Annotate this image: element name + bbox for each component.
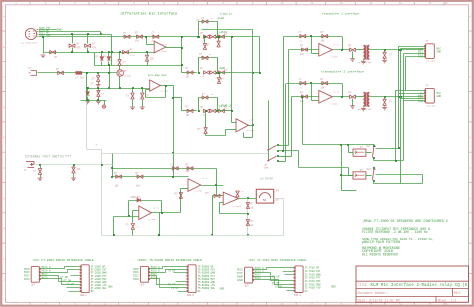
wire switch to relay path xyxy=(298,151,300,168)
wire U7 feedback vertical xyxy=(161,201,163,213)
wire relay right vertical xyxy=(422,175,424,184)
svg-text:RL?: RL? xyxy=(367,145,372,148)
wire foot switch line xyxy=(35,164,113,166)
resistor T1 R output xyxy=(350,48,356,52)
svg-text:R?: R? xyxy=(300,92,304,95)
resistor R10 cell B xyxy=(203,71,209,75)
svg-text:DB9-F: DB9-F xyxy=(80,294,88,297)
svg-text:R?: R? xyxy=(77,43,81,46)
transistor Q2 circle xyxy=(117,70,124,77)
wire U1 output xyxy=(166,47,182,49)
op-amp T2 xyxy=(319,91,333,104)
wire filter input line xyxy=(113,176,189,178)
wire stage rail y=100.3 xyxy=(81,100,107,102)
wire switch feed line y=153.1 pale xyxy=(102,153,269,155)
svg-text:GND: GND xyxy=(237,278,243,282)
wire U5 feedback loop xyxy=(243,133,245,138)
svg-text:C?: C? xyxy=(299,78,303,81)
wire T1 transformer secondary to connector xyxy=(370,49,424,51)
diode D9 cell C xyxy=(219,109,225,113)
wire K1 contact common up xyxy=(373,145,375,146)
wire cell C out right xyxy=(218,110,232,112)
wire relay top line xyxy=(303,144,375,146)
svg-text:J?: J? xyxy=(24,169,28,172)
wire cell B line from riser xyxy=(182,72,197,74)
cable left connector X? xyxy=(245,267,253,283)
svg-text:L?-1644: L?-1644 xyxy=(148,218,157,221)
svg-text:C?: C? xyxy=(33,170,37,173)
wire T2 feedback riser to switch xyxy=(285,84,287,162)
svg-text:R?: R? xyxy=(201,106,205,109)
wire mic pin2 net xyxy=(39,31,101,33)
svg-text:10k: 10k xyxy=(186,75,191,78)
svg-text:µA METER: µA METER xyxy=(261,178,274,181)
wire T2 transformer secondary to connector xyxy=(370,96,424,98)
resistor R18 input xyxy=(137,175,143,179)
svg-text:12: 12 xyxy=(340,303,344,306)
svg-text:4.7k: 4.7k xyxy=(130,54,136,57)
wire U6 +in drop to bus xyxy=(212,196,214,236)
svg-text:µPA3: µPA3 xyxy=(220,30,228,34)
svg-text:C?: C? xyxy=(202,93,206,96)
svg-text:R?: R? xyxy=(186,163,190,166)
svg-text:R?: R? xyxy=(300,45,304,48)
svg-text:R?: R? xyxy=(136,172,140,175)
svg-text:LT1630: LT1630 xyxy=(160,50,168,53)
svg-text:µPWR-2: µPWR-2 xyxy=(220,104,232,108)
svg-text:pre-amp mic: pre-amp mic xyxy=(148,73,167,77)
cable wires xyxy=(254,268,294,270)
svg-text:GND: GND xyxy=(418,99,424,103)
transformer T2 xyxy=(363,92,369,107)
svg-text:C?: C? xyxy=(125,224,129,227)
ground mic xyxy=(41,55,46,58)
svg-text:LT1630: LT1630 xyxy=(331,102,339,105)
capacitor C1 on bus xyxy=(124,35,130,39)
svg-text:1k: 1k xyxy=(251,207,255,210)
connector CN2 xyxy=(426,88,435,103)
wire U5 -in from divider xyxy=(226,129,237,131)
svg-text:R?: R? xyxy=(349,45,353,48)
cell A bypass loop xyxy=(199,22,218,37)
wire T2 output xyxy=(333,96,350,98)
svg-text:Date: 3/15/19 11:07 PM: Date: 3/15/19 11:07 PM xyxy=(358,299,400,303)
resistor T1 R input xyxy=(302,48,308,52)
svg-text:gnd3: gnd3 xyxy=(218,16,225,20)
wire U4 output xyxy=(201,185,224,187)
svg-text:U?.D: U?.D xyxy=(202,177,208,180)
wire K1 coil right pin xyxy=(366,152,372,154)
svg-text:X?: X? xyxy=(426,40,430,43)
svg-text:R?: R? xyxy=(321,78,325,81)
svg-text:16: 16 xyxy=(444,2,448,5)
wire Q2 emitter down to preamp xyxy=(119,77,121,89)
wire T2 transformer bottom pins xyxy=(363,107,365,108)
svg-text:10: 10 xyxy=(281,2,285,5)
switch S2 lever xyxy=(268,156,276,161)
wire pin2 corner down to L3 xyxy=(100,32,102,35)
wire drop from jack line x=86.5 xyxy=(86,73,88,101)
meter M1 xyxy=(256,189,273,203)
svg-text:K?: K? xyxy=(360,169,364,172)
pale vertical drop x=101.9 to bottom bus xyxy=(101,154,103,236)
svg-text:x-: x- xyxy=(96,143,100,146)
svg-text:10k: 10k xyxy=(77,168,82,171)
wire U2 out branch to cell C xyxy=(174,97,182,99)
svg-text:MIC8: MIC8 xyxy=(151,276,158,279)
resistor T2 R feedback xyxy=(322,81,328,85)
wire cell B out right xyxy=(218,72,260,74)
diode D1 series xyxy=(50,50,56,54)
svg-text:47k: 47k xyxy=(77,46,82,49)
svg-text:D?: D? xyxy=(96,56,100,59)
svg-text:MIC-JACK: MIC-JACK xyxy=(426,60,436,63)
svg-text:15: 15 xyxy=(428,2,432,5)
resistor R21 meter loop xyxy=(246,203,250,209)
resistor R15 to gnd xyxy=(73,164,75,166)
svg-text:.1u: .1u xyxy=(299,87,303,90)
svg-text:X?: X? xyxy=(245,284,249,288)
wire U2 output drop to input line xyxy=(173,154,175,177)
cable left connector X? xyxy=(140,266,148,282)
wire K2 coil left pin xyxy=(342,175,354,177)
svg-text:differential mic interface: differential mic interface xyxy=(121,12,178,17)
wire T2 output to transformer xyxy=(356,96,364,98)
svg-text:10k: 10k xyxy=(321,87,326,90)
svg-text:U?.B: U?.B xyxy=(334,91,340,94)
svg-text:R?: R? xyxy=(321,31,325,34)
resistor T2 R output xyxy=(350,95,356,99)
svg-text:R?: R? xyxy=(201,32,205,35)
resistor R3 series on rail xyxy=(123,50,129,54)
svg-text:<K3#2> TS-590SG RADIO INTERFAC: <K3#2> TS-590SG RADIO INTERFACE CABLE xyxy=(137,258,202,262)
wire T2 +in from feedback xyxy=(311,84,313,101)
svg-text:R?: R? xyxy=(130,49,134,52)
svg-text:10: 10 xyxy=(281,303,285,306)
wire T1 output xyxy=(333,49,350,51)
svg-text:GND: GND xyxy=(437,51,442,54)
wire T1 +in from feedback xyxy=(311,37,313,54)
ground T1 output xyxy=(352,52,354,59)
resistor R24 divider xyxy=(204,128,208,134)
svg-text:Z?: Z? xyxy=(91,82,95,85)
svg-text:U?.B: U?.B xyxy=(334,44,340,47)
wire feedback drop to output xyxy=(216,169,218,196)
svg-text:16: 16 xyxy=(444,303,448,306)
resistor R19 on -in drop xyxy=(179,193,183,199)
resistor T1 R feedback xyxy=(322,34,328,38)
wire K2 contact NO to bottom line xyxy=(373,182,375,184)
svg-text:IC MC: IC MC xyxy=(275,286,283,289)
wire relay bottom stub xyxy=(342,190,357,192)
svg-text:R?: R? xyxy=(92,43,96,46)
svg-text:10k: 10k xyxy=(186,114,191,117)
svg-text:14: 14 xyxy=(399,303,403,306)
title block box xyxy=(356,266,469,302)
svg-text:10k: 10k xyxy=(300,53,305,56)
wire clamp right leg xyxy=(111,35,113,66)
svg-text:D?: D? xyxy=(103,56,107,59)
wire T1 transformer bottom pins xyxy=(363,60,365,61)
cable stub wires xyxy=(283,271,294,273)
wire K1 contact NC to bus xyxy=(376,148,399,150)
transistor Q3 drop cell B xyxy=(219,75,221,78)
wire signal rail H3 to U1 -in xyxy=(44,52,155,54)
svg-text:D?: D? xyxy=(56,68,60,71)
capacitor C4 cell C top xyxy=(202,96,208,100)
svg-text:C?: C? xyxy=(197,19,201,22)
svg-text:.1u: .1u xyxy=(210,93,214,96)
svg-text:Q?: Q? xyxy=(221,78,225,81)
capacitor C3 cell B top xyxy=(202,56,208,60)
diode D8 cell B xyxy=(219,71,225,75)
wire T1 output to transformer xyxy=(356,49,364,51)
svg-text:10k: 10k xyxy=(115,184,120,187)
resistor R23 cell C pre xyxy=(187,109,193,113)
wires CN1 pin lines xyxy=(399,46,425,48)
svg-text:.1u: .1u xyxy=(208,53,212,56)
capacitor C2 cell A top xyxy=(202,20,208,24)
capacitor shunt C11 on +in xyxy=(141,87,143,89)
svg-text:C?: C? xyxy=(199,53,203,56)
resistor R13 cell C xyxy=(203,109,209,113)
wire cell A right loop down xyxy=(259,37,261,73)
svg-text:R?: R? xyxy=(198,128,202,131)
wire clamp leg extension down xyxy=(109,66,111,89)
wire diode loop top xyxy=(129,200,162,202)
wire U7 +in drop with C7 xyxy=(132,211,134,223)
svg-text:µMACCO PALM PATTERN: µMACCO PALM PATTERN xyxy=(362,240,400,244)
diode D6 1N4148 xyxy=(137,198,140,202)
svg-text:Document Number:: Document Number: xyxy=(358,291,389,295)
svg-text:MIC8: MIC8 xyxy=(24,278,30,281)
svg-text:D?: D? xyxy=(54,56,58,59)
svg-text:DIN-8: DIN-8 xyxy=(294,294,302,297)
wire U2 output right and down xyxy=(161,85,174,87)
svg-text:U?.B: U?.B xyxy=(154,207,160,210)
svg-text:C?: C? xyxy=(389,100,393,103)
svg-text:47k: 47k xyxy=(92,46,97,49)
svg-text:R?: R? xyxy=(349,92,353,95)
svg-text:transmitter 2 interface: transmitter 2 interface xyxy=(321,70,364,74)
svg-text:RL?: RL? xyxy=(367,168,372,171)
svg-text:R?: R? xyxy=(114,172,118,175)
bottom bus y=235.1 pale xyxy=(102,235,284,237)
svg-text:K?: K? xyxy=(360,146,364,149)
meter return loop xyxy=(283,199,285,236)
wire U7 -in riser xyxy=(113,217,115,236)
vertical bus group below CN2 to relays xyxy=(395,91,397,161)
svg-text:2N3904: 2N3904 xyxy=(124,75,132,78)
op-amp U7 xyxy=(139,206,152,220)
resistor R16 input xyxy=(116,175,122,179)
svg-text:14: 14 xyxy=(399,2,403,5)
wire U7 output drop to bus xyxy=(159,213,161,236)
resistor R22 meter loop lower xyxy=(246,220,250,226)
resistor R8 cell A xyxy=(210,35,216,39)
meter loop vertical xyxy=(247,199,249,236)
svg-text:U?.A: U?.A xyxy=(163,80,169,83)
relay K1 contact xyxy=(373,147,376,158)
wire U6 +in line xyxy=(213,195,224,197)
wire relay top feed from T2 input xyxy=(302,97,304,145)
wire T1 input line xyxy=(289,49,319,51)
svg-text:MIC-JACK: MIC-JACK xyxy=(426,104,436,107)
cell B bypass loop xyxy=(199,58,218,73)
wire K2 contact NC right xyxy=(376,174,423,176)
capacitor C10 feedback xyxy=(172,167,178,171)
svg-text:GND: GND xyxy=(331,286,336,289)
vertical bus x=252.9 xyxy=(252,30,254,138)
svg-text:EXTERNAL FOOT SWITCH PTT: EXTERNAL FOOT SWITCH PTT xyxy=(25,154,71,158)
svg-text:R?: R? xyxy=(175,192,179,195)
svg-text:ALL RIGHTS RESERVED: ALL RIGHTS RESERVED xyxy=(362,252,398,256)
ground marks under rail xyxy=(85,101,90,104)
svg-text:L?-1644: L?-1644 xyxy=(233,205,242,208)
svg-text:C?: C? xyxy=(389,53,393,56)
resistor R20 on +in xyxy=(214,194,220,198)
varistor T1 xyxy=(384,49,386,51)
resistor R7 cell A xyxy=(203,35,209,39)
svg-text:MIC8 GND: MIC8 GND xyxy=(39,34,51,37)
capacitor T2 C feedback xyxy=(300,81,306,85)
svg-text:L?-1634: L?-1634 xyxy=(194,189,203,192)
svg-text:X?: X? xyxy=(31,283,35,287)
svg-text:L?-1634: L?-1634 xyxy=(246,129,255,132)
wire jack audio line xyxy=(38,72,118,74)
diode D7 cell A xyxy=(219,35,225,39)
svg-text:10k: 10k xyxy=(135,40,140,43)
ground T2 output xyxy=(352,99,354,106)
op-amp U6 xyxy=(223,192,238,205)
transformer T1 xyxy=(363,45,369,60)
connector CN1 xyxy=(426,44,435,59)
divider drop from cell C xyxy=(205,111,207,128)
cable right connector DB9-F xyxy=(81,265,89,293)
wire U2 -in loop xyxy=(146,89,150,91)
capacitor across U6 apex xyxy=(236,191,240,197)
svg-text:R?: R? xyxy=(135,32,139,35)
svg-text:.1u: .1u xyxy=(299,40,303,43)
wire K2 contact common up xyxy=(373,168,375,169)
svg-text:KLM MIc Interface 2-Radios rel: KLM MIc Interface 2-Radios relay CQ (K xyxy=(371,283,468,288)
wire T2 input riser to switch xyxy=(291,97,293,157)
svg-text:<K3> IC-7610 MISC INTERFACE CA: <K3> IC-7610 MISC INTERFACE CABLE xyxy=(248,258,306,262)
wire T1 feedback line xyxy=(284,36,343,38)
svg-text:.1u: .1u xyxy=(210,17,214,20)
svg-text:R?: R? xyxy=(186,67,190,70)
wire mic pin4 main bus xyxy=(39,36,198,38)
svg-text:MIC8: MIC8 xyxy=(42,276,49,279)
zener D5 to ground xyxy=(97,72,99,74)
supply arrow below rail xyxy=(104,101,106,105)
transistor Q1 drop cell A xyxy=(204,39,206,44)
svg-text:R?: R? xyxy=(251,220,255,223)
diode D2 clamp xyxy=(101,51,103,53)
svg-text:GND: GND xyxy=(220,288,225,291)
switch S1 lever xyxy=(268,145,276,150)
inductor L1 xyxy=(76,71,83,74)
wire U1 +in stub xyxy=(147,44,155,46)
svg-text:D?: D? xyxy=(225,69,229,72)
vertical bus group between CN1 CN2 xyxy=(398,47,400,94)
wire clamp left leg xyxy=(94,53,96,66)
wire Q2 collector up to rail xyxy=(119,53,121,60)
svg-text:xx: xx xyxy=(101,93,105,96)
capacitor T1 C feedback xyxy=(300,34,306,38)
svg-text:R?: R? xyxy=(206,192,210,195)
wire branch to gnd rail xyxy=(43,37,45,54)
relay K2 coil xyxy=(353,172,366,179)
svg-text:1k: 1k xyxy=(251,224,255,227)
svg-text:15: 15 xyxy=(428,303,432,306)
svg-text:.1u: .1u xyxy=(136,226,140,229)
cable stub wires xyxy=(174,272,187,274)
svg-text:M?: M? xyxy=(276,190,280,193)
wire U7 output xyxy=(152,212,181,214)
varistor T2 xyxy=(384,96,386,98)
wires CN2 pin lines xyxy=(396,90,425,92)
svg-text:REV:: REV: xyxy=(454,291,462,295)
op-amp U4 xyxy=(188,179,201,192)
op-amp U5 xyxy=(236,119,248,132)
resistor R17 feedback xyxy=(187,167,193,171)
svg-text:13: 13 xyxy=(369,2,373,5)
svg-text:<K3> FT-2000 RADIO INTERFACE C: <K3> FT-2000 RADIO INTERFACE CABLE xyxy=(32,258,93,262)
cable stub wires xyxy=(67,287,80,289)
svg-text:Z?: Z? xyxy=(92,78,96,81)
resistor T2 R input xyxy=(302,95,308,99)
svg-text:FT PT: FT PT xyxy=(67,283,75,286)
wire T1 feedback riser to switch xyxy=(283,37,285,151)
svg-text:13: 13 xyxy=(369,303,373,306)
svg-text:GND: GND xyxy=(108,286,113,289)
relay K1 coil xyxy=(353,149,366,156)
svg-text:FILTER RESPONSE -3 dB 300 - 31: FILTER RESPONSE -3 dB 300 - 3100 Hz xyxy=(362,230,428,234)
svg-text:mAR: mAR xyxy=(220,66,226,70)
svg-text:R?: R? xyxy=(186,105,190,108)
svg-text:C?: C? xyxy=(123,62,127,65)
cable right connector DB9-M xyxy=(188,265,196,293)
svg-text:PTT: PTT xyxy=(265,167,270,170)
wire U4 -in drop xyxy=(181,188,189,190)
wire U5 +in xyxy=(232,122,237,124)
svg-text:C?: C? xyxy=(152,32,156,35)
cable wires xyxy=(150,267,187,269)
svg-text:Sheet: 1/1: Sheet: 1/1 xyxy=(438,299,457,303)
wire meter output right xyxy=(274,198,284,200)
svg-text:TS UP: TS UP xyxy=(168,269,176,272)
audio jack J2 xyxy=(29,71,37,76)
svg-text:Q?: Q? xyxy=(124,70,128,73)
svg-text:U?.A: U?.A xyxy=(162,43,168,46)
diode D3 clamp xyxy=(108,51,110,53)
svg-text:GND: GND xyxy=(57,27,63,31)
resistor R4 series audio bus xyxy=(137,35,143,39)
jack J3 foot switch xyxy=(26,162,34,168)
svg-text:R?: R? xyxy=(251,203,255,206)
wire mic pin3 line L3 xyxy=(39,34,112,36)
wire U6 -in loop xyxy=(220,202,224,204)
svg-text:50: 50 xyxy=(263,199,267,202)
wire K1 coil left pin xyxy=(348,145,350,153)
cable left connector X? xyxy=(31,266,39,282)
diode D4 series jack xyxy=(58,71,64,75)
wire cell A out to right box xyxy=(218,36,260,38)
svg-text:X?: X? xyxy=(140,283,144,287)
svg-text:1N4148: 1N4148 xyxy=(130,196,140,199)
wire preamp +in line xyxy=(87,88,150,90)
